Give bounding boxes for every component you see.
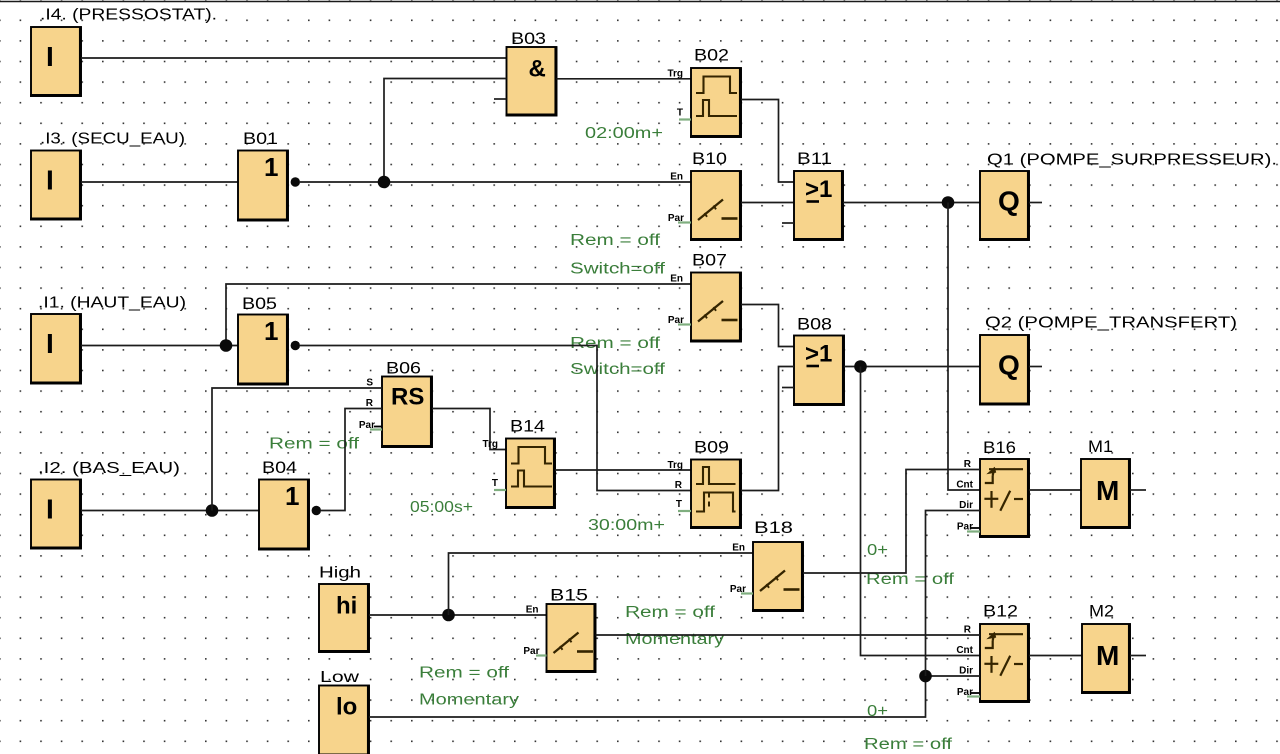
- wire I4 output to B03 input 1: [81, 57, 507, 59]
- label M2: [1089, 603, 1114, 621]
- wire B11 output to Q1: [843, 202, 980, 204]
- NOT gate B04: [258, 480, 309, 550]
- svg-text:.I1. (HAUT_EAU): .I1. (HAUT_EAU): [38, 295, 186, 312]
- svg-text:Rem = off: Rem = off: [864, 736, 953, 753]
- svg-text:Trg: Trg: [667, 460, 683, 471]
- label B01: [243, 130, 278, 148]
- svg-text:T: T: [676, 499, 682, 510]
- counter B12 up-down: [956, 624, 1029, 702]
- junction node hi output branch: [442, 609, 455, 622]
- stub B08 input 3: [782, 387, 794, 389]
- analog amplifier B15: [523, 604, 595, 672]
- label B04: [262, 459, 297, 477]
- value label 30:00m+ for B09: [588, 517, 665, 534]
- svg-text:I: I: [46, 494, 54, 525]
- parameter stub Par of B16: [967, 528, 980, 532]
- wire B03 output to B02 Trg: [557, 78, 692, 80]
- value label 02:00m+ for B02: [585, 125, 663, 142]
- label Q1 (POMPE_SURPRESSEUR): [987, 152, 1277, 169]
- svg-text:Dir: Dir: [959, 666, 973, 677]
- wire node B01 up to B03 input 2: [384, 79, 507, 183]
- wire B10 output to B11 input 2: [741, 202, 794, 204]
- label B11: [797, 150, 832, 168]
- label I4 (PRESSOSTAT): [40, 7, 217, 24]
- svg-text:Q: Q: [998, 350, 1020, 381]
- wire junction up to B18 En: [449, 553, 754, 615]
- label High: [319, 565, 361, 582]
- wire B01 output to B10 En: [300, 181, 691, 183]
- output Q1 block: [979, 171, 1029, 240]
- svg-text:M: M: [1096, 475, 1119, 506]
- wire B14 output to B09 Trg: [555, 469, 691, 471]
- parameter stub Par of B15: [536, 654, 547, 656]
- label B10: [692, 150, 727, 168]
- svg-text:B07: B07: [692, 252, 727, 270]
- wire B05 output to B09 R: [300, 346, 691, 491]
- svg-text:B18: B18: [754, 519, 793, 537]
- label B05: [242, 295, 277, 313]
- value label Momentary for lo: [419, 692, 519, 709]
- wire hi output to B15 En: [369, 614, 547, 616]
- timer B02 pulse relay: [667, 68, 741, 137]
- value label Momentary for B15: [625, 631, 724, 648]
- value label 0+ for B12: [867, 703, 888, 720]
- svg-text:Rem = off: Rem = off: [625, 604, 716, 621]
- svg-text:05:00s+: 05:00s+: [410, 499, 473, 516]
- analog amplifier B18: [730, 542, 803, 611]
- label B12: [983, 603, 1018, 621]
- wire I3 output to B01: [81, 181, 238, 183]
- parameter stub Par of B07: [678, 323, 691, 325]
- value label 05:00s+ for B14: [410, 499, 473, 516]
- svg-text:M1: M1: [1088, 438, 1113, 456]
- svg-text:R: R: [964, 625, 972, 636]
- RS latch B06: [359, 377, 432, 448]
- stub M2 output: [1130, 655, 1146, 657]
- wire B02 output to B11 input 1: [741, 100, 794, 183]
- junction node Dir branch: [919, 670, 932, 683]
- junction node I2 output branch: [206, 504, 219, 517]
- value label Rem = off for B16: [866, 571, 955, 588]
- NOT gate B01: [237, 151, 288, 221]
- svg-text:Q1 (POMPE_SURPRESSEUR).: Q1 (POMPE_SURPRESSEUR).: [987, 152, 1277, 169]
- svg-text:B15: B15: [550, 587, 588, 605]
- svg-text:B09: B09: [694, 439, 729, 457]
- svg-text:Rem = off: Rem = off: [419, 665, 510, 682]
- label I2 (BAS_EAU): [38, 460, 180, 477]
- timer B14 pulse relay: [482, 439, 555, 509]
- wire node I2 up to B06 S: [212, 388, 382, 511]
- label I1 (HAUT_EAU): [38, 295, 186, 312]
- svg-text:Trg: Trg: [482, 439, 498, 450]
- parameter stub Par of B10: [678, 221, 691, 223]
- value label 0+ for B16: [867, 542, 888, 559]
- junction node Q1 input branch: [942, 196, 955, 209]
- label B15: [550, 587, 588, 605]
- wire B07 output to B08 input 1: [741, 305, 794, 347]
- svg-text:B12: B12: [983, 603, 1018, 621]
- svg-text:B03: B03: [511, 30, 546, 48]
- inversion bubble B04 output: [312, 506, 321, 515]
- svg-text:R: R: [964, 459, 972, 470]
- svg-text:B16: B16: [983, 439, 1016, 457]
- wire B12 output to M2: [1029, 655, 1082, 657]
- svg-text:Switch=off: Switch=off: [570, 261, 666, 278]
- svg-text:.I2. (BAS_EAU): .I2. (BAS_EAU): [38, 460, 180, 477]
- output M1 block: [1080, 459, 1130, 528]
- parameter stub Par of B06: [370, 427, 382, 430]
- svg-text:En: En: [526, 605, 539, 616]
- OR gate B11: [793, 171, 843, 240]
- label B16: [983, 439, 1016, 457]
- value label Rem = off for B07: [570, 335, 661, 352]
- svg-text:High: High: [319, 565, 361, 582]
- svg-text:Momentary: Momentary: [419, 692, 519, 709]
- svg-text:Momentary: Momentary: [625, 631, 724, 648]
- label B14: [510, 418, 545, 436]
- wire B06 output to B14 Trg: [432, 409, 506, 450]
- svg-text:.I4. (PRESSOSTAT).: .I4. (PRESSOSTAT).: [40, 7, 217, 24]
- OR gate B08: [793, 336, 844, 406]
- svg-text:R: R: [675, 480, 683, 491]
- svg-text:I: I: [46, 41, 54, 72]
- svg-text:B14: B14: [510, 418, 545, 436]
- svg-text:B11: B11: [797, 150, 832, 168]
- parameter stub Par of B18: [741, 592, 753, 594]
- stub M1 output: [1130, 489, 1146, 491]
- value label Rem = off for B06: [269, 436, 360, 453]
- wire junction down to B12 Cnt: [861, 367, 981, 656]
- svg-text:>1: >1: [805, 176, 832, 203]
- svg-text:1: 1: [285, 481, 299, 511]
- parameter stub T of B09: [678, 510, 691, 512]
- value label Rem = off for B12: [864, 736, 953, 753]
- parameter stub T of B02: [679, 118, 691, 120]
- svg-text:En: En: [670, 172, 683, 183]
- junction node I1 output branch: [220, 339, 233, 352]
- label Q2 (POMPE_TRANSFERT): [985, 315, 1237, 332]
- svg-text:RS: RS: [391, 384, 424, 411]
- input I2 block: [30, 480, 81, 549]
- timer B09 pulse relay: [667, 460, 741, 529]
- svg-text:B10: B10: [692, 150, 727, 168]
- svg-text:1: 1: [264, 316, 278, 346]
- label Low: [320, 669, 360, 686]
- stub Q1 output: [1029, 202, 1042, 204]
- value label Switch=off for B10: [570, 261, 666, 278]
- wire I2 output to B04: [81, 510, 259, 512]
- svg-text:I: I: [46, 165, 54, 196]
- wire node I1 up to B07 En: [226, 284, 691, 346]
- svg-text:Rem = off: Rem = off: [269, 436, 360, 453]
- svg-text:I: I: [46, 328, 54, 359]
- label B02: [694, 47, 729, 65]
- svg-text:02:00m+: 02:00m+: [585, 125, 663, 142]
- svg-text:B04: B04: [262, 459, 297, 477]
- wire B09 output to B08 input 2: [741, 367, 794, 491]
- stub B03 input 3: [494, 98, 507, 100]
- junction node B01 output branch: [378, 176, 391, 189]
- svg-text:lo: lo: [336, 694, 357, 721]
- svg-text:1: 1: [264, 152, 278, 182]
- svg-text:En: En: [670, 274, 683, 285]
- input I4 block: [30, 27, 81, 96]
- svg-text:Cnt: Cnt: [956, 645, 973, 656]
- svg-text:Dir: Dir: [959, 500, 973, 511]
- wire junction up to B16 Dir: [926, 511, 981, 677]
- AND gate B03: [506, 47, 557, 116]
- svg-text:B02: B02: [694, 47, 729, 65]
- svg-text:Switch=off: Switch=off: [570, 361, 666, 378]
- wire junction down to B16 Cnt: [948, 203, 980, 491]
- junction node B08 output branch: [854, 360, 867, 373]
- wire B08 output to Q2: [844, 366, 980, 368]
- analog amplifier B07: [668, 273, 741, 342]
- svg-text:M: M: [1096, 640, 1119, 671]
- svg-text:>1: >1: [805, 341, 832, 368]
- label B07: [692, 252, 727, 270]
- label B18: [754, 519, 793, 537]
- svg-text:.I3. (SECU_EAU): .I3. (SECU_EAU): [40, 131, 185, 148]
- svg-text:T: T: [492, 478, 498, 489]
- parameter stub T of B14: [494, 489, 506, 491]
- wire B18 output to B16 R: [803, 470, 980, 574]
- value label Rem = off for B10: [570, 232, 661, 249]
- stub Q2 output: [1029, 366, 1042, 368]
- svg-text:B01: B01: [243, 130, 278, 148]
- output M2 block: [1081, 624, 1130, 693]
- label B06: [386, 360, 421, 378]
- label I3 (SECU_EAU): [40, 131, 185, 148]
- svg-text:S: S: [366, 378, 373, 389]
- svg-text:R: R: [366, 398, 374, 409]
- svg-text:0+: 0+: [867, 542, 888, 559]
- wire B04 output to B06 R: [321, 409, 382, 511]
- parameter stub Par of B12: [967, 693, 980, 697]
- analog amplifier B10: [668, 171, 741, 240]
- svg-text:T: T: [677, 108, 683, 119]
- svg-text:Q: Q: [998, 186, 1020, 217]
- svg-text:Cnt: Cnt: [956, 480, 973, 491]
- stub B11 input 3: [782, 222, 794, 224]
- output Q2 block: [979, 335, 1029, 405]
- svg-text:Rem = off: Rem = off: [570, 232, 661, 249]
- svg-text:Low: Low: [320, 669, 360, 686]
- counter B16 up-down: [956, 459, 1029, 537]
- svg-text:Trg: Trg: [667, 69, 683, 80]
- svg-text:B05: B05: [242, 295, 277, 313]
- wire lo output to B12 Dir: [369, 676, 980, 717]
- svg-text:Q2 (POMPE_TRANSFERT): Q2 (POMPE_TRANSFERT): [985, 315, 1237, 332]
- value label Switch=off for B07: [570, 361, 666, 378]
- svg-text:Rem = off: Rem = off: [570, 335, 661, 352]
- label B09: [694, 439, 729, 457]
- value label Rem = off for lo: [419, 665, 510, 682]
- inversion bubble B01 output: [291, 177, 300, 186]
- input lo block: [318, 686, 369, 754]
- input hi block: [318, 584, 369, 652]
- input I3 block: [30, 151, 81, 220]
- svg-text:hi: hi: [336, 593, 357, 620]
- svg-text:30:00m+: 30:00m+: [588, 517, 665, 534]
- label B03: [511, 30, 546, 48]
- wire I1 output to B05: [81, 345, 238, 347]
- svg-text:B08: B08: [797, 316, 832, 334]
- svg-text:En: En: [732, 543, 745, 554]
- inversion bubble B05 output: [291, 341, 300, 350]
- wire B16 output to M1: [1029, 489, 1081, 491]
- input I1 block: [30, 314, 81, 384]
- label B08: [797, 316, 832, 334]
- svg-text:B06: B06: [386, 360, 421, 378]
- svg-text:&: &: [529, 56, 546, 83]
- NOT gate B05: [237, 315, 288, 385]
- svg-text:M2: M2: [1089, 603, 1114, 621]
- wire B15 output to B12 R: [596, 634, 981, 636]
- value label Rem = off for B15: [625, 604, 716, 621]
- label M1: [1088, 438, 1113, 456]
